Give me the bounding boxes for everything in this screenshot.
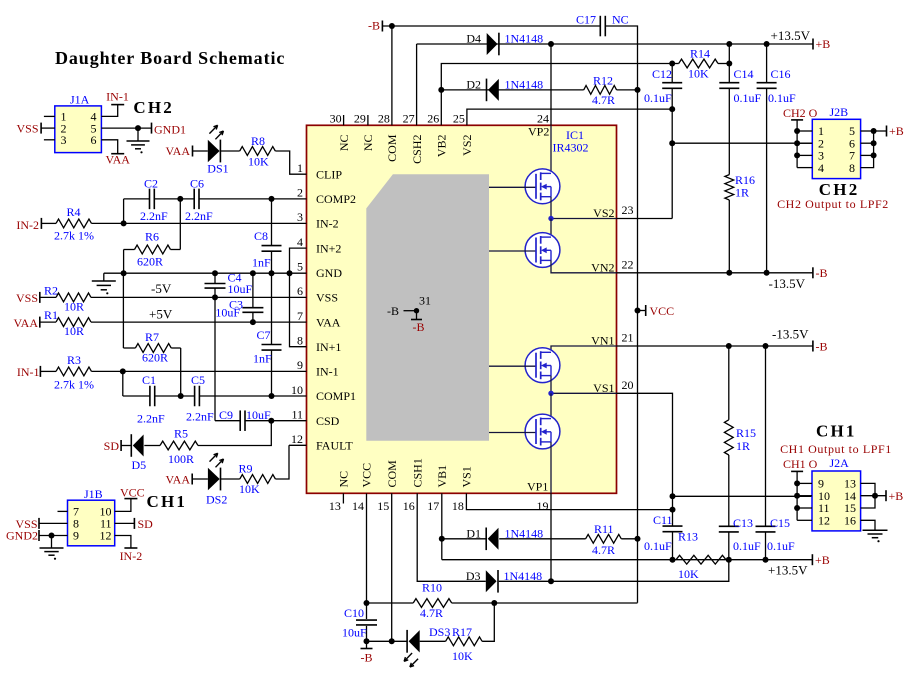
wire R17 up to R10 line xyxy=(482,603,494,641)
svg-text:4.7R: 4.7R xyxy=(592,93,615,107)
svg-text:10K: 10K xyxy=(248,155,269,169)
svg-text:NC: NC xyxy=(361,135,375,152)
svg-text:CH1 Output to LPF1: CH1 Output to LPF1 xyxy=(780,442,892,456)
svg-text:VCC: VCC xyxy=(650,304,675,318)
capacitor C11 0.1uF xyxy=(644,513,683,560)
IC1 top pin numbers xyxy=(330,112,549,126)
wire J2B right pin stubs xyxy=(861,131,887,168)
connector J2A body xyxy=(812,471,861,531)
svg-text:1R: 1R xyxy=(735,186,749,200)
svg-text:C9: C9 xyxy=(219,408,233,422)
node GND-C4 junction xyxy=(212,270,218,276)
svg-text:+5V: +5V xyxy=(149,307,173,322)
node VB2-D2 junction xyxy=(438,87,444,93)
port +B bottom rail xyxy=(812,553,829,567)
svg-text:2.2nF: 2.2nF xyxy=(186,410,214,424)
wire pin 14 VCC vertical xyxy=(366,493,368,619)
node GND-R6 junction xyxy=(121,270,127,276)
capacitor C15 0.1uF xyxy=(756,346,796,560)
node VAA-C3 junction xyxy=(250,319,256,325)
svg-text:CH1: CH1 xyxy=(816,422,857,441)
capacitor C6 2.2nF xyxy=(185,177,213,224)
port CH2O at J2B xyxy=(791,120,803,168)
IC1 bottom pin names xyxy=(337,458,474,487)
port VSS at J1B pin 8 xyxy=(15,517,67,531)
svg-text:VAA: VAA xyxy=(105,153,130,167)
wire C2-C6 junction down to R6 xyxy=(179,199,181,250)
wire J2A left pin stubs xyxy=(797,483,812,520)
diode D4 1N4148 xyxy=(466,32,543,56)
svg-text:NC: NC xyxy=(337,135,351,152)
pin 31 -B connection inside IC1 xyxy=(387,294,431,335)
wire COMP2 pin 2 line xyxy=(124,199,307,224)
port VSS at J1A pin 2 xyxy=(16,121,54,135)
node VS2 internal junction xyxy=(548,216,553,221)
svg-text:12: 12 xyxy=(100,529,112,543)
wire D2-R12 line xyxy=(441,89,583,91)
svg-text:VAA: VAA xyxy=(166,473,191,487)
svg-text:C14: C14 xyxy=(734,67,754,81)
node VN1-R15 junction xyxy=(726,343,732,349)
wire pin 13 NC stub xyxy=(342,493,344,503)
svg-text:CLIP: CLIP xyxy=(316,167,342,181)
svg-text:VS2: VS2 xyxy=(460,135,474,156)
svg-text:16: 16 xyxy=(403,499,415,513)
svg-text:Daughter Board Schematic: Daughter Board Schematic xyxy=(55,48,285,68)
svg-text:3: 3 xyxy=(61,133,67,147)
svg-text:VB2: VB2 xyxy=(435,135,449,158)
wire DS1 to R8 xyxy=(220,150,239,152)
wire Q2 source to VN2 line xyxy=(551,260,617,272)
svg-text:10R: 10R xyxy=(64,324,84,338)
node COMP2 to C8 junction xyxy=(269,196,275,202)
svg-text:2.2nF: 2.2nF xyxy=(137,412,165,426)
svg-text:D4: D4 xyxy=(466,32,481,46)
node GND2 junction xyxy=(49,533,55,539)
svg-text:R2: R2 xyxy=(44,284,58,298)
svg-text:16: 16 xyxy=(844,514,856,528)
resistor R14 10K xyxy=(672,47,729,81)
svg-text:SD: SD xyxy=(138,517,154,531)
wire internal VS2 line xyxy=(551,218,617,220)
resistor R3 2.7k 1% xyxy=(54,353,94,392)
svg-text:14: 14 xyxy=(352,499,364,513)
node COM-DS3 junction xyxy=(389,638,395,644)
port -B top left xyxy=(368,19,600,33)
wire R4 to IC1 pin 3 IN-2 xyxy=(92,222,307,224)
svg-text:100R: 100R xyxy=(168,452,194,466)
node R12 to VCC vertical junction xyxy=(635,87,641,93)
node VS2 to J2B branch junction xyxy=(669,140,675,146)
wire R9 up to FAULT xyxy=(275,445,289,479)
node D3-VP1 junction xyxy=(548,578,554,584)
diode D5 xyxy=(131,434,146,472)
diode D2 1N4148 xyxy=(466,77,543,101)
wire J1A pin 5 to GND1 xyxy=(101,127,151,129)
svg-text:12: 12 xyxy=(291,432,303,446)
svg-text:GND: GND xyxy=(316,266,342,280)
svg-text:22: 22 xyxy=(622,257,634,271)
node VP2 rail junction xyxy=(548,41,554,47)
diode D1 1N4148 xyxy=(466,526,543,550)
capacitor C4 10uF xyxy=(205,271,253,298)
wire pin 30 NC stub xyxy=(343,115,345,125)
wire VS1 pin 20 down right side xyxy=(617,393,673,526)
op-amp IC1 IR4302 body xyxy=(307,125,617,493)
svg-text:VAA: VAA xyxy=(166,144,191,158)
resistor R2 10R xyxy=(44,284,91,314)
node VCC-R10 junction xyxy=(364,600,370,606)
svg-text:24: 24 xyxy=(537,112,549,126)
port -B at VN1 xyxy=(813,339,828,353)
svg-text:C5: C5 xyxy=(191,373,205,387)
port IN-2 input xyxy=(16,218,56,232)
node J2B pin6 junction xyxy=(871,140,877,146)
svg-text:3: 3 xyxy=(297,210,303,224)
node VS1-VB... pin18 join junction xyxy=(670,507,676,513)
svg-text:4.7R: 4.7R xyxy=(592,543,615,557)
LED DS1 xyxy=(207,125,228,175)
IC1 right pin numbers xyxy=(622,203,634,392)
svg-text:C8: C8 xyxy=(254,229,268,243)
transistor Q3 (CH1 high side) xyxy=(489,348,560,383)
svg-text:IN-2: IN-2 xyxy=(316,217,339,231)
node VN2-C16 junction xyxy=(764,270,770,276)
capacitor C2 2.2nF xyxy=(140,177,168,224)
svg-text:2.7k 1%: 2.7k 1% xyxy=(54,229,94,243)
wire D1-R11 line xyxy=(442,538,486,540)
port VAA feeding DS2 xyxy=(166,473,208,487)
svg-text:31: 31 xyxy=(419,294,431,308)
svg-text:GND2: GND2 xyxy=(6,529,38,543)
capacitor C1 2.2nF xyxy=(137,373,165,426)
capacitor C17 (NC) xyxy=(576,13,629,37)
svg-text:IN-1: IN-1 xyxy=(106,90,129,104)
resistor R1 10R xyxy=(44,308,91,338)
svg-text:R6: R6 xyxy=(145,230,159,244)
resistor R17 10K xyxy=(446,625,483,663)
svg-text:12: 12 xyxy=(818,514,830,528)
wire Q1 source to VS2 node xyxy=(550,197,552,219)
svg-text:18: 18 xyxy=(452,499,464,513)
svg-text:+B: +B xyxy=(889,489,904,503)
svg-text:620R: 620R xyxy=(137,255,163,269)
node C10 bottom -B junction xyxy=(364,638,370,644)
wire internal VS1 line xyxy=(551,392,617,394)
node IN-2 junction with COMP2 branch xyxy=(121,220,127,226)
svg-text:C10: C10 xyxy=(344,606,364,620)
svg-text:1nF: 1nF xyxy=(253,352,272,366)
port VAA feeding R1 xyxy=(14,316,56,330)
wire VB2 node line xyxy=(441,64,672,126)
node J2B pin2 junction xyxy=(794,140,800,146)
svg-text:9: 9 xyxy=(297,358,303,372)
wire +5V net to IC1 pin 7 VAA xyxy=(91,321,307,323)
svg-text:20: 20 xyxy=(622,378,634,392)
port VCC at J1B pin 10 xyxy=(115,486,145,512)
svg-text:0.1uF: 0.1uF xyxy=(767,539,795,553)
wire R5 up to CSD line xyxy=(198,421,271,446)
connector J2B body xyxy=(812,119,860,178)
connector J1A body xyxy=(55,106,102,153)
svg-text:6: 6 xyxy=(91,133,97,147)
node R14 right junction xyxy=(726,61,732,67)
resistor R12 4.7R xyxy=(584,74,638,108)
wire Q3 source to VS1 node xyxy=(550,376,552,394)
svg-text:-B: -B xyxy=(361,651,373,665)
svg-text:C15: C15 xyxy=(770,516,790,530)
wire pin 29 NC stub xyxy=(367,115,369,125)
svg-text:GND1: GND1 xyxy=(154,123,186,137)
svg-text:27: 27 xyxy=(403,112,415,126)
transistor Q1 (CH2 high side) xyxy=(489,169,560,204)
wire Q3 drain to VN1 line xyxy=(551,346,617,352)
svg-text:VSS: VSS xyxy=(16,291,38,305)
wire COMP1 pin 10 line xyxy=(123,395,307,397)
node -B to COM pin 28 junction xyxy=(389,23,395,29)
capacitor C3 10uF xyxy=(215,273,263,322)
node rail-C13-D3 junction xyxy=(726,557,732,563)
LED DS3 xyxy=(404,625,450,667)
wire pin 27 CSH2 vertical xyxy=(416,44,418,125)
wire R8 to IC1 pin 1 CLIP xyxy=(275,151,306,174)
svg-text:5: 5 xyxy=(297,260,303,274)
node VN1-C15 junction xyxy=(763,343,769,349)
svg-text:R5: R5 xyxy=(174,427,188,441)
svg-text:R3: R3 xyxy=(67,353,81,367)
diode D3 1N4148 xyxy=(466,569,542,593)
svg-text:CH1: CH1 xyxy=(147,492,188,511)
node J2A pin10 junction xyxy=(794,493,800,499)
svg-text:+B: +B xyxy=(816,37,831,51)
svg-text:SD: SD xyxy=(104,439,120,453)
node VS1 internal junction xyxy=(548,391,553,396)
svg-text:17: 17 xyxy=(427,499,439,513)
node J2B pin7 junction xyxy=(871,152,877,158)
svg-text:28: 28 xyxy=(378,112,390,126)
wire pin 15 COM vertical xyxy=(391,493,393,641)
node VB1-D1 junction xyxy=(439,536,445,542)
port VCC tap on VCC vertical xyxy=(635,304,675,318)
wire IN+2 pin 4 jog to GND xyxy=(290,248,307,347)
node GND-C8-C7 junction xyxy=(269,270,275,276)
IC1 die outline xyxy=(366,174,489,440)
node C12 top junction xyxy=(669,61,675,67)
node J2B pin3 junction xyxy=(794,152,800,158)
port -B at VN2 xyxy=(813,266,828,280)
svg-text:1nF: 1nF xyxy=(252,256,271,270)
svg-text:10K: 10K xyxy=(678,567,699,581)
port IN-2 at J1B pin 12 xyxy=(115,536,143,564)
IC1 top pin names xyxy=(337,134,474,164)
wire J2B left pin stubs xyxy=(797,131,812,168)
svg-text:IN-2: IN-2 xyxy=(16,218,39,232)
ground symbol at J1B xyxy=(40,536,64,560)
port +B at J2A xyxy=(886,489,903,503)
resistor R7 620R xyxy=(123,330,180,365)
port +B at J2B xyxy=(887,124,904,138)
svg-text:C2: C2 xyxy=(144,177,158,191)
svg-text:R13: R13 xyxy=(678,530,698,544)
wire Q4 drain to VS1 node xyxy=(550,393,552,418)
svg-text:NC: NC xyxy=(612,13,629,27)
wire VN1 pin 21 -B line xyxy=(617,345,813,347)
svg-text:29: 29 xyxy=(354,112,366,126)
node rail-C11 junction xyxy=(670,557,676,563)
svg-text:C17: C17 xyxy=(576,13,596,27)
connector J1A pin numbers xyxy=(61,110,97,147)
svg-text:-13.5V: -13.5V xyxy=(769,276,806,291)
svg-text:COM: COM xyxy=(385,460,399,488)
svg-text:10K: 10K xyxy=(688,67,709,81)
node J2A pin9 junction xyxy=(794,480,800,486)
node C12 bottom VS2 junction xyxy=(669,106,675,112)
svg-text:C13: C13 xyxy=(733,516,753,530)
svg-text:C1: C1 xyxy=(142,373,156,387)
svg-text:R4: R4 xyxy=(67,205,81,219)
svg-text:13: 13 xyxy=(329,499,341,513)
wire VS2 to J2B pin 2 xyxy=(672,142,812,144)
svg-text:R15: R15 xyxy=(736,426,756,440)
svg-text:C11: C11 xyxy=(653,513,673,527)
node rail C16 junction xyxy=(764,41,770,47)
node R11 to VCC vertical junction xyxy=(635,536,641,542)
svg-text:DS2: DS2 xyxy=(206,493,227,507)
port VSS feeding R2 xyxy=(16,291,56,305)
node J2A pin11 junction xyxy=(794,505,800,511)
wire CSD pin 11 line xyxy=(215,297,307,420)
wire pin 28 COM vertical xyxy=(391,26,393,125)
svg-text:25: 25 xyxy=(453,112,465,126)
port IN-1 input xyxy=(17,365,56,379)
resistor R9 10K xyxy=(239,461,276,496)
wire J1A pin 3 stub xyxy=(44,139,55,141)
port IN-1 at J1A pin 4 xyxy=(101,90,128,117)
wire D3 to VB1 rail corner xyxy=(499,560,729,582)
svg-text:IN-1: IN-1 xyxy=(17,365,40,379)
node J1A pin5 ground junction xyxy=(135,125,141,131)
svg-text:10uF: 10uF xyxy=(246,408,271,422)
port GND2 at J1B pin 9 xyxy=(6,529,68,543)
svg-text:0.1uF: 0.1uF xyxy=(733,539,761,553)
svg-text:2.2nF: 2.2nF xyxy=(185,209,213,223)
svg-text:-13.5V: -13.5V xyxy=(772,327,809,342)
port -B at C10 xyxy=(361,649,373,665)
svg-text:10uF: 10uF xyxy=(342,626,367,640)
svg-text:26: 26 xyxy=(427,112,439,126)
svg-text:C16: C16 xyxy=(771,67,791,81)
svg-text:8: 8 xyxy=(297,334,303,348)
svg-text:10: 10 xyxy=(291,383,303,397)
wire VS1 to J2A pin 10 xyxy=(673,495,813,497)
IC1 right pin names xyxy=(591,206,614,395)
capacitor C16 0.1uF xyxy=(757,44,796,273)
svg-text:2.2nF: 2.2nF xyxy=(140,209,168,223)
node CSD-R5 junction xyxy=(268,418,274,424)
svg-text:-B: -B xyxy=(816,266,828,280)
svg-text:VSS: VSS xyxy=(316,291,338,305)
svg-text:R1: R1 xyxy=(44,308,58,322)
connector J1B body xyxy=(68,500,115,546)
wire VS2 pin 25 to C12 bottom line xyxy=(467,109,672,125)
node rail-C15 junction xyxy=(763,557,769,563)
svg-text:VAA: VAA xyxy=(316,315,341,329)
node J2B pin1 junction xyxy=(794,128,800,134)
svg-text:IR4302: IR4302 xyxy=(553,141,589,155)
wire Q4 source to VP1 pin 19 xyxy=(550,442,552,493)
wire J1B pin 7 stub xyxy=(58,510,68,512)
wire VN2 pin 22 -B line xyxy=(617,272,813,274)
svg-text:+B: +B xyxy=(815,553,830,567)
svg-text:J1B: J1B xyxy=(84,487,103,501)
LED DS2 xyxy=(206,453,227,506)
capacitor C14 0.1uF and resistor R16 1R chain xyxy=(719,44,761,175)
svg-text:D3: D3 xyxy=(466,569,481,583)
svg-text:0.1uF: 0.1uF xyxy=(768,91,796,105)
svg-text:15: 15 xyxy=(377,499,389,513)
svg-text:10R: 10R xyxy=(64,300,84,314)
svg-text:R10: R10 xyxy=(422,581,442,595)
ground symbol mid-left xyxy=(92,273,116,294)
svg-text:1N4148: 1N4148 xyxy=(505,77,544,91)
wire R7 right down to COMP1 line xyxy=(180,348,182,396)
capacitor C5 2.2nF xyxy=(186,373,214,424)
svg-text:0.1uF: 0.1uF xyxy=(644,539,672,553)
transistor Q2 (CH2 low side) xyxy=(489,233,560,268)
svg-text:CH2: CH2 xyxy=(133,98,174,117)
port SD at J1B pin 11 xyxy=(115,517,153,531)
node R10-R17 junction xyxy=(491,600,497,606)
svg-text:CSH1: CSH1 xyxy=(410,458,424,487)
wire D1 to R11 xyxy=(499,538,585,540)
ground symbol at J1A xyxy=(127,128,150,153)
svg-text:CH1 O: CH1 O xyxy=(783,457,818,471)
IC1 left pin numbers 1-12 xyxy=(291,161,307,446)
svg-text:1: 1 xyxy=(297,161,303,175)
capacitor C13 0.1uF xyxy=(719,455,761,560)
svg-text:DS3: DS3 xyxy=(429,625,450,639)
wire VB1 +13.5V rail xyxy=(442,559,813,561)
svg-text:4: 4 xyxy=(297,235,303,249)
svg-text:1N4148: 1N4148 xyxy=(505,32,544,46)
svg-text:VS1: VS1 xyxy=(460,466,474,487)
IC1 left pin names xyxy=(316,167,356,452)
svg-text:11: 11 xyxy=(291,408,303,422)
wire VS2 pin 23 to J2B line xyxy=(617,218,673,220)
svg-text:7: 7 xyxy=(297,309,303,323)
node COMP1-C7 junction xyxy=(269,393,275,399)
capacitor C8 1nF xyxy=(252,199,282,273)
svg-text:VCC: VCC xyxy=(360,463,374,488)
capacitor C10 10uF xyxy=(342,606,377,649)
resistor R10 4.7R xyxy=(367,581,638,621)
resistor R5 100R xyxy=(160,427,198,467)
node J2B pin5 junction xyxy=(871,128,877,134)
node GND-C3 junction xyxy=(250,270,256,276)
svg-text:10uF: 10uF xyxy=(228,282,253,296)
svg-text:VSS: VSS xyxy=(16,121,38,135)
svg-text:R11: R11 xyxy=(594,522,614,536)
svg-text:-B: -B xyxy=(368,19,380,33)
capacitor C7 1nF xyxy=(253,273,282,396)
svg-text:0.1uF: 0.1uF xyxy=(644,91,672,105)
wire R6 left down to GND line xyxy=(123,250,125,274)
svg-text:IN+1: IN+1 xyxy=(316,340,341,354)
svg-text:D1: D1 xyxy=(466,526,481,540)
svg-text:-B: -B xyxy=(413,320,425,334)
wire DS3 line xyxy=(367,640,408,642)
wire J1A pin 1 stub xyxy=(44,115,55,117)
